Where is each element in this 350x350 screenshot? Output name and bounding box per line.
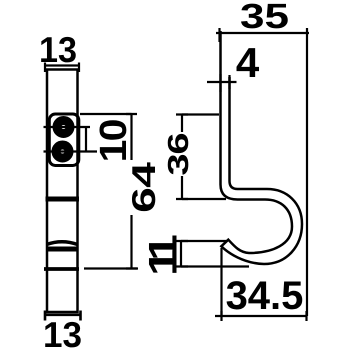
svg-text:4: 4	[236, 39, 260, 86]
dimension line 36	[176, 115, 188, 200]
hook bottom edge line (front view)	[44, 267, 79, 271]
screw hole 1 center mark	[44, 126, 91, 128]
screw hole 1	[57, 121, 70, 134]
svg-text:6: 6	[125, 187, 162, 213]
extension line left bottom (34.5)	[220, 248, 222, 316]
svg-text:35: 35	[240, 0, 289, 36]
screw hole 2 center mark	[44, 150, 98, 152]
hook curve lower band (front view)	[46, 247, 79, 252]
svg-text:1: 1	[93, 140, 135, 163]
dimension line 34.5	[215, 311, 307, 321]
dimension 36: bottom extension	[182, 198, 226, 200]
boss rounded rect around screw holes	[49, 114, 79, 166]
dimension line 13 top	[44, 63, 80, 73]
svg-text:1: 1	[142, 249, 186, 276]
svg-text:0: 0	[93, 119, 135, 142]
dimension line 35	[216, 28, 309, 42]
dimension bracket 10 (hole spacing)	[85, 127, 87, 152]
dimension line 13 bottom	[44, 311, 82, 321]
svg-text:3: 3	[163, 153, 195, 175]
svg-text:13: 13	[43, 314, 82, 350]
dimension line 11	[175, 241, 188, 267]
hook strip profile	[221, 31, 303, 264]
screw hole 2	[56, 145, 69, 158]
plate outline	[47, 70, 78, 313]
dimension line 4 (arm thickness)	[207, 74, 237, 92]
hook curve upper arc (front view)	[47, 242, 78, 245]
svg-text:4: 4	[125, 161, 162, 188]
hook band (front view of bend)	[46, 197, 80, 202]
dimension line 64	[126, 114, 137, 269]
extension line right (35/34.5)	[306, 28, 308, 316]
extension line 11 bottom	[181, 265, 249, 267]
extension line top (boss top level)	[80, 113, 132, 115]
dimension 36: top extension	[182, 113, 219, 115]
svg-text:34.5: 34.5	[226, 274, 304, 318]
svg-text:6: 6	[163, 132, 195, 154]
extension line bottom	[84, 267, 138, 269]
extension line 11 top (to hook tip)	[181, 240, 227, 242]
